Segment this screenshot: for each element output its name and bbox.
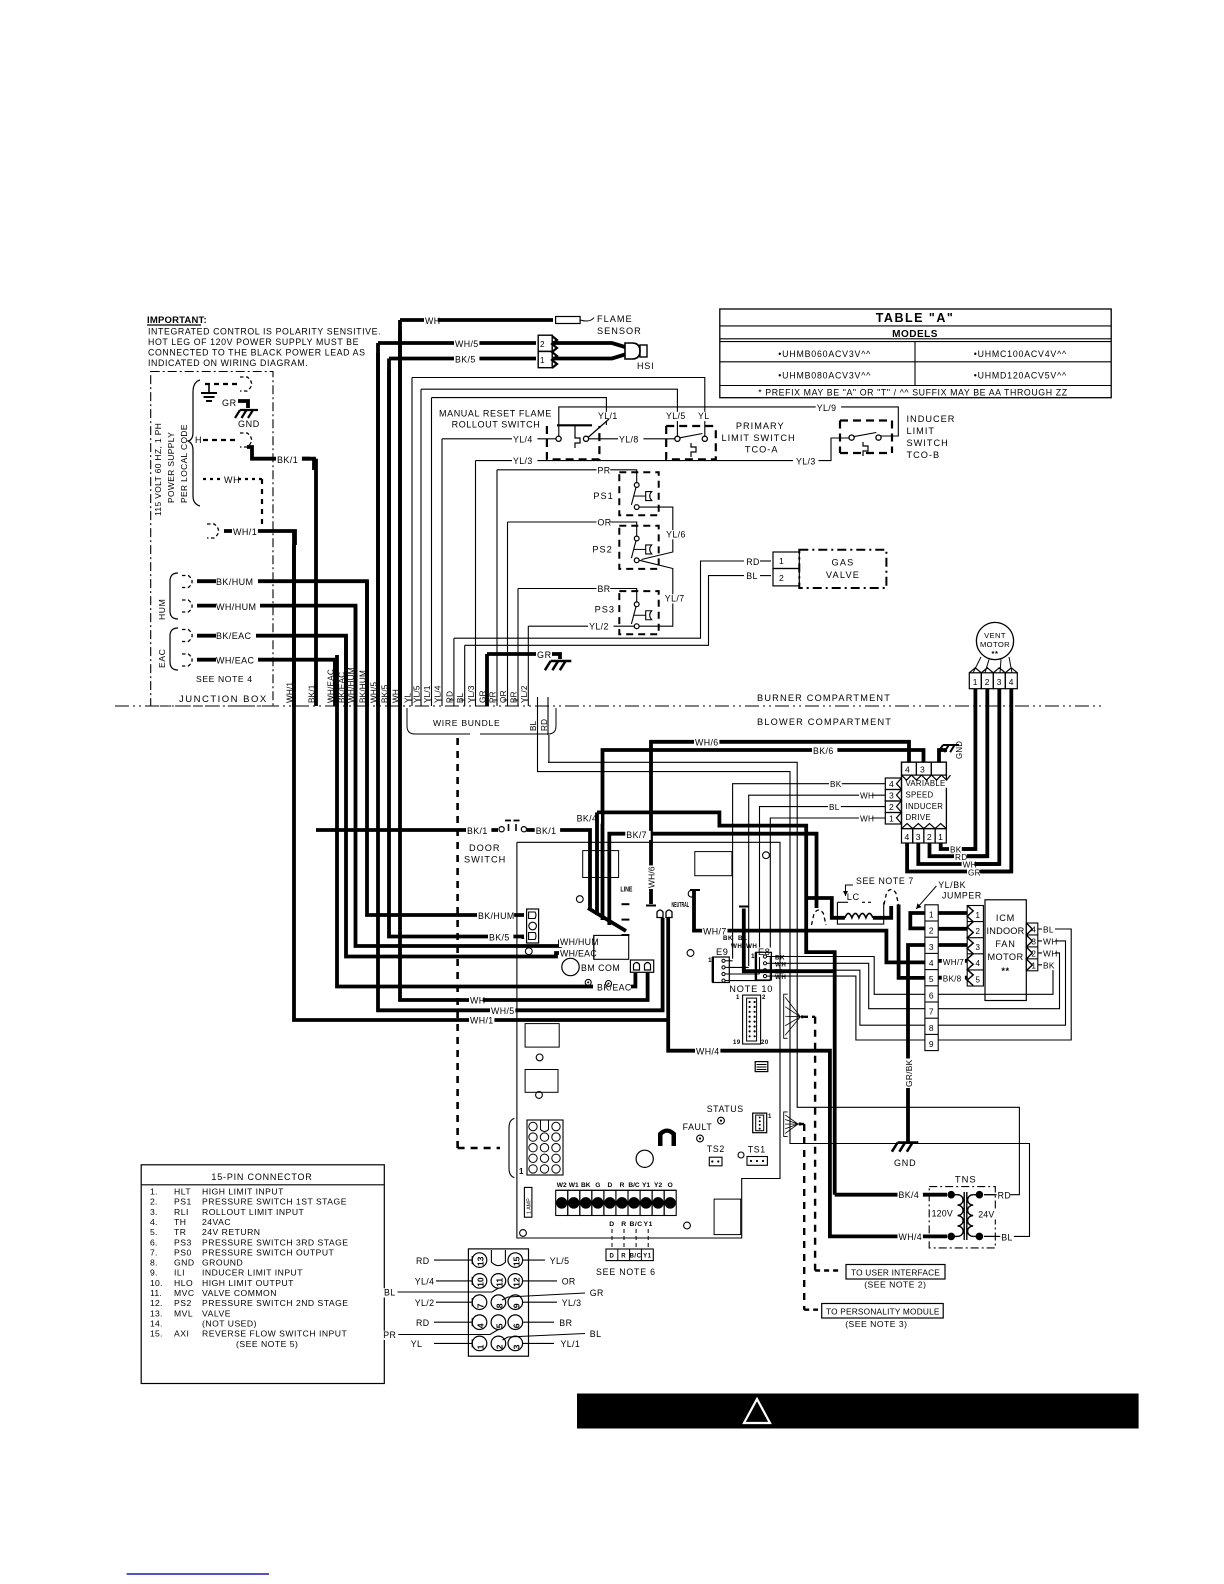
svg-text:1: 1 <box>521 934 525 941</box>
wire BK VSID bottom pin1 to vent motor <box>941 843 976 849</box>
board component rectangles lower-left <box>525 1024 559 1048</box>
wire BK VSID left pin4 to E9 <box>733 784 886 959</box>
svg-text:HIGH LIMIT INPUT: HIGH LIMIT INPUT <box>202 1187 284 1197</box>
svg-text:6: 6 <box>929 990 934 1000</box>
svg-text:1: 1 <box>519 1167 524 1176</box>
wire WH vertical <box>398 320 402 706</box>
svg-text:4.: 4. <box>150 1217 158 1227</box>
LINE terminal diagonal <box>588 908 626 931</box>
svg-text:9: 9 <box>929 1039 934 1049</box>
svg-text:BL: BL <box>590 1329 602 1339</box>
svg-text:1: 1 <box>476 1344 486 1349</box>
svg-text:PRIMARY: PRIMARY <box>736 421 785 431</box>
svg-text:WH: WH <box>775 974 786 981</box>
wire BK/HUM <box>197 579 216 583</box>
svg-text:NOTE 10: NOTE 10 <box>729 984 773 994</box>
svg-text:2: 2 <box>494 1344 504 1349</box>
svg-text:SWITCH: SWITCH <box>907 438 949 448</box>
transformer TNS dash-dot box <box>929 1187 995 1248</box>
wire YL/5 vertical <box>420 389 422 706</box>
connector E9 <box>715 948 730 958</box>
svg-text:R: R <box>620 1182 625 1189</box>
svg-text:RD: RD <box>998 1191 1012 1201</box>
wire WH VSID left pin1 to E9 <box>770 818 885 980</box>
15-pin connector pin 13 <box>472 1253 487 1268</box>
ribbon cable fan-out <box>784 994 788 1038</box>
svg-text:BM COM: BM COM <box>581 963 620 973</box>
15-pin connector pin 6 <box>508 1315 523 1330</box>
svg-text:2: 2 <box>779 573 784 583</box>
svg-text:WH: WH <box>775 961 786 968</box>
vent motor wire 2 <box>967 689 987 857</box>
svg-text:8.: 8. <box>150 1258 158 1268</box>
svg-text:SEE NOTE 7: SEE NOTE 7 <box>856 876 914 886</box>
svg-text:3: 3 <box>511 1344 521 1349</box>
svg-text:BL: BL <box>746 571 758 581</box>
svg-text:GAS: GAS <box>831 558 854 568</box>
svg-text:BLOWER COMPARTMENT: BLOWER COMPARTMENT <box>757 717 892 727</box>
pin lead BL to 11 <box>398 1288 499 1292</box>
svg-text:YL/1: YL/1 <box>561 1339 581 1349</box>
svg-text:Y1: Y1 <box>642 1182 650 1189</box>
svg-text:WIRE BUNDLE: WIRE BUNDLE <box>433 718 500 728</box>
svg-text:GR: GR <box>479 690 488 703</box>
pressure switch PS2 dashed box <box>619 526 658 569</box>
svg-text:FLAME: FLAME <box>597 314 633 324</box>
wire WH/5 to HSI <box>378 341 536 345</box>
svg-text:VALVE COMMON: VALVE COMMON <box>202 1288 277 1298</box>
svg-text:H: H <box>195 435 202 445</box>
svg-text:15.: 15. <box>150 1329 163 1339</box>
BM COM circle <box>562 958 579 975</box>
svg-text:GND: GND <box>894 1158 916 1168</box>
wire BK/6 board to VSID pin3 <box>603 750 924 920</box>
svg-text:R: R <box>621 1221 626 1228</box>
rollout switch blade <box>588 419 609 438</box>
VSID left pins 4 3 2 1 <box>885 778 901 790</box>
9-pin connector column <box>925 905 938 1051</box>
2-cell plug connector <box>630 960 653 972</box>
svg-text:3: 3 <box>997 677 1002 687</box>
svg-text:2: 2 <box>762 995 766 1001</box>
wire HSI lead top <box>552 343 625 347</box>
svg-text:PS1: PS1 <box>593 491 613 501</box>
svg-text:3: 3 <box>889 791 894 801</box>
pressure switch PS1 dashed box <box>619 472 658 515</box>
PS1 contacts <box>634 483 639 488</box>
svg-text:1: 1 <box>889 814 894 824</box>
wire YL/1 from bundle to rollout switch blade <box>432 398 607 425</box>
svg-text:B/C: B/C <box>630 1254 642 1260</box>
15-pin connector pin 7 <box>472 1295 487 1310</box>
svg-text:VARIABLE: VARIABLE <box>906 779 946 788</box>
svg-text:BK/7: BK/7 <box>626 830 647 840</box>
svg-text:YL/3: YL/3 <box>467 685 476 703</box>
piezo circle <box>636 1150 653 1167</box>
wire BK/HUM run into board connector <box>367 592 524 915</box>
wire YL/4 vertical <box>441 439 443 706</box>
svg-text:PS3: PS3 <box>174 1237 192 1247</box>
TCO-B thermal element <box>863 442 868 456</box>
svg-text:2: 2 <box>889 802 894 812</box>
svg-text:(SEE NOTE 3): (SEE NOTE 3) <box>845 1319 907 1329</box>
svg-text:MANUAL RESET FLAME: MANUAL RESET FLAME <box>439 409 552 419</box>
svg-text:LINE: LINE <box>620 885 632 894</box>
svg-text:PR: PR <box>489 691 498 703</box>
svg-text:WH: WH <box>224 475 240 485</box>
svg-text:YL/2: YL/2 <box>589 622 609 632</box>
svg-text:20: 20 <box>761 1040 769 1046</box>
wire WH/EAC run into board <box>346 646 594 957</box>
svg-text:Y1: Y1 <box>643 1254 652 1260</box>
jumper YL/BK between pins 1 and 2 <box>910 913 925 928</box>
svg-text:GR: GR <box>968 868 981 877</box>
wire plug to 9-pin pin5 BK/8 <box>899 905 925 978</box>
dashed plug left of ILC (BK/7) <box>812 910 827 925</box>
footer blue line <box>127 1573 269 1575</box>
board component rectangle upper-right <box>695 852 732 876</box>
wire GR/BK from pin3 to ground <box>908 945 925 1143</box>
svg-text:24V: 24V <box>978 1210 994 1220</box>
svg-text:24VAC: 24VAC <box>202 1217 231 1227</box>
wire GR vertical (heavy) <box>485 654 489 706</box>
svg-text:GR/BK: GR/BK <box>904 1059 914 1087</box>
wire HSI lead bottom <box>552 355 625 359</box>
svg-text:GR: GR <box>590 1288 604 1298</box>
pin lead BL to 2 <box>503 1334 586 1341</box>
TNS primary coil 120V <box>951 1194 957 1196</box>
E9 pin jumper wires to VSID leads <box>729 960 732 962</box>
svg-text:EAC: EAC <box>157 649 167 668</box>
HSI connector plug pins 2 and 1 <box>538 335 552 351</box>
svg-text:4: 4 <box>905 832 910 842</box>
wire BK from E8 to pin6 <box>771 957 925 995</box>
svg-text:MVL: MVL <box>174 1308 193 1318</box>
15-pin connector pin 15 <box>508 1253 523 1268</box>
svg-text:1: 1 <box>751 953 755 960</box>
svg-text:HUM: HUM <box>157 599 167 620</box>
svg-text:BK: BK <box>723 935 733 942</box>
svg-text:BR: BR <box>559 1318 572 1328</box>
svg-text:BK/HUM: BK/HUM <box>216 577 253 587</box>
svg-text:ROLLOUT SWITCH: ROLLOUT SWITCH <box>452 420 541 430</box>
svg-text:D: D <box>609 1221 614 1228</box>
svg-text:YL: YL <box>404 692 413 703</box>
svg-text:YL/4: YL/4 <box>513 435 533 445</box>
svg-text:WH/EAC: WH/EAC <box>216 656 255 666</box>
box TO USER INTERFACE <box>846 1265 945 1280</box>
svg-text:10.: 10. <box>150 1278 163 1288</box>
svg-text:PS0: PS0 <box>174 1247 192 1257</box>
pin lead OR to 12 <box>523 1280 557 1282</box>
wire YL/3 vertical <box>475 461 477 706</box>
svg-text:3: 3 <box>976 943 981 952</box>
svg-text:TNS: TNS <box>955 1174 977 1185</box>
svg-text:BR: BR <box>510 691 519 703</box>
svg-text:INDICATED ON WIRING DIAGRAM.: INDICATED ON WIRING DIAGRAM. <box>148 358 308 368</box>
TCO-A thermal element <box>691 443 696 457</box>
svg-text:3: 3 <box>929 942 934 952</box>
svg-text:BK/1: BK/1 <box>308 684 317 703</box>
svg-text:YL/5: YL/5 <box>550 1256 570 1266</box>
svg-text:8: 8 <box>494 1303 504 1308</box>
svg-text:12.: 12. <box>150 1298 163 1308</box>
wire WH run into board <box>400 330 648 1000</box>
wire heavy into ILC <box>806 898 845 918</box>
15-pin connector pin 3 <box>508 1336 523 1351</box>
vent motor wire 4 <box>981 689 1011 872</box>
15-pin connector pin 10 <box>472 1274 487 1289</box>
wire BK/EAC run into board <box>337 655 593 987</box>
wire YL/5 from bundle to TCO-A left contact <box>421 389 677 436</box>
svg-text:19: 19 <box>733 1040 741 1046</box>
wire WH VSID left pin3 to E9 <box>749 795 886 966</box>
svg-text:(SEE NOTE 5): (SEE NOTE 5) <box>236 1339 298 1349</box>
wire WH/7 to 9-pin connector pin4 <box>694 890 925 962</box>
HUM EAC junction box on board <box>594 935 629 959</box>
burner/blower compartment divider line <box>115 705 1105 707</box>
pin lead BR to 6 <box>523 1321 554 1323</box>
wire WH from E8 to pin7 <box>771 963 925 1008</box>
svg-text:WH: WH <box>746 943 757 950</box>
wire YL/7 PS2 to PS3 <box>640 560 673 626</box>
TCO-A blade <box>680 434 703 438</box>
svg-text:YL/BK: YL/BK <box>938 880 966 890</box>
svg-text:6.: 6. <box>150 1237 158 1247</box>
svg-text:RD: RD <box>416 1256 430 1266</box>
wire YL/2 from PS3 to bundle <box>528 625 634 627</box>
svg-text:MVC: MVC <box>174 1288 195 1298</box>
svg-text:3: 3 <box>920 765 925 775</box>
svg-text:Y1: Y1 <box>644 1221 653 1228</box>
wire BK from ICM pin1 <box>938 965 1053 995</box>
svg-text:VALVE: VALVE <box>202 1308 231 1318</box>
svg-text:BK/8: BK/8 <box>943 975 962 984</box>
wire WH/5 run into board neutral <box>378 353 663 1010</box>
vent motor circle <box>976 622 1013 659</box>
svg-text:INDUCER: INDUCER <box>907 414 956 424</box>
wire ILC to plug <box>873 906 891 918</box>
svg-text:OR: OR <box>562 1277 576 1287</box>
svg-text:STATUS: STATUS <box>707 1104 744 1114</box>
svg-text:RD: RD <box>416 1318 430 1328</box>
svg-text:WH/5: WH/5 <box>455 339 479 349</box>
wire WH from E8 to pin9 <box>771 976 925 1040</box>
15-pin connector pin 2 <box>491 1336 506 1351</box>
svg-text:TH: TH <box>174 1217 186 1227</box>
gas valve dashed box <box>799 550 886 588</box>
svg-text:YL/8: YL/8 <box>619 435 639 445</box>
dashed link to personality module box <box>804 1308 818 1310</box>
svg-text:1: 1 <box>929 909 934 919</box>
svg-text:R: R <box>621 1254 626 1260</box>
svg-text:OR: OR <box>598 518 612 528</box>
wire BL from ICM pin4 <box>938 929 1071 1040</box>
svg-text:TCO-A: TCO-A <box>745 445 779 455</box>
svg-text:BL: BL <box>384 1288 396 1298</box>
VSID ground wire <box>939 750 947 762</box>
15-pin connector pin 11 <box>491 1274 506 1289</box>
junction box enclosure (dash-dot border) <box>151 372 273 707</box>
svg-text:RD: RD <box>540 719 549 731</box>
TNS terminals <box>947 1191 955 1199</box>
15-pin connector body <box>468 1249 528 1356</box>
pin lead YL/4 to 10 <box>436 1280 472 1282</box>
chassis ground GND <box>240 409 258 411</box>
svg-text:WH/HUM: WH/HUM <box>560 937 599 947</box>
burner chassis ground <box>551 660 572 663</box>
svg-text:YL/9: YL/9 <box>817 403 837 413</box>
wire YL vertical <box>411 378 413 707</box>
pin lead YL/1 to 3 <box>523 1342 554 1344</box>
15-pin connector pin 8 <box>491 1295 506 1310</box>
svg-text:3.: 3. <box>150 1207 158 1217</box>
wire BR vertical <box>517 589 519 707</box>
svg-text:6: 6 <box>511 1323 521 1328</box>
wire WH/EAC vertical <box>333 660 337 706</box>
wire BK/HUM vertical <box>365 581 369 706</box>
svg-text:4: 4 <box>889 779 894 789</box>
board mount rectangle bottom <box>714 1199 741 1235</box>
wire YL/1 vertical <box>431 398 433 706</box>
15-pin connector legend table <box>141 1165 384 1384</box>
wire WH/7 terminal bar <box>690 889 700 891</box>
svg-text:W1: W1 <box>569 1182 579 1189</box>
svg-text:2: 2 <box>976 927 981 936</box>
variable speed inducer drive box <box>902 762 947 829</box>
connector D R B/C Y1 <box>606 1249 653 1261</box>
svg-text:SWITCH: SWITCH <box>464 855 506 865</box>
wire WH/HUM vertical <box>354 606 358 706</box>
vent motor lead trapezoid <box>973 657 981 673</box>
svg-text:FAN: FAN <box>995 939 1015 949</box>
svg-text:SENSOR: SENSOR <box>597 326 642 336</box>
pin lead YL/5 to 15 <box>523 1259 545 1261</box>
chassis ground GND blower <box>898 1141 919 1144</box>
svg-text:INDOOR: INDOOR <box>987 926 1025 936</box>
connector plug BK/EAC <box>182 630 192 642</box>
wire BK/8 pin5 to ICM pin5 <box>938 976 967 980</box>
svg-text:JUNCTION BOX: JUNCTION BOX <box>179 694 268 705</box>
svg-text:YL/2: YL/2 <box>520 685 529 703</box>
svg-text:G: G <box>595 1182 600 1189</box>
svg-text:PRESSURE SWITCH OUTPUT: PRESSURE SWITCH OUTPUT <box>202 1247 335 1257</box>
wire BK/5 vertical <box>387 359 391 707</box>
svg-text:HLO: HLO <box>174 1278 193 1288</box>
warning banner black bar <box>577 1394 1139 1429</box>
wire WH from ICM pin3 <box>938 941 1065 1025</box>
svg-text:WH/EAC: WH/EAC <box>560 949 597 959</box>
svg-text:(NOT USED): (NOT USED) <box>202 1318 257 1328</box>
wire WH/EAC <box>197 658 216 662</box>
svg-text:BK/5: BK/5 <box>455 355 476 365</box>
ICM right pin column 4 3 2 1 <box>1026 923 1038 971</box>
svg-text:**: ** <box>992 649 999 658</box>
svg-text:1: 1 <box>976 911 981 920</box>
svg-text:BK/4: BK/4 <box>577 814 598 824</box>
pin lead RD to 4 <box>434 1321 472 1323</box>
board component rectangle upper-left <box>583 851 619 878</box>
svg-text:PRESSURE SWITCH 2ND STAGE: PRESSURE SWITCH 2ND STAGE <box>202 1298 349 1308</box>
vent motor wire 1 <box>950 689 975 849</box>
connector plug WH/EAC <box>182 654 192 666</box>
connector plug BK/HUM <box>182 576 192 588</box>
svg-text:YL/1: YL/1 <box>423 685 432 703</box>
wire BK/EAC vertical <box>344 636 348 706</box>
box TO PERSONALITY MODULE <box>822 1304 944 1319</box>
svg-text:LC: LC <box>847 892 860 902</box>
svg-text:11.: 11. <box>150 1288 162 1298</box>
svg-text:YL/5: YL/5 <box>413 685 422 703</box>
wire pin3 to ICM pin3 <box>938 943 967 947</box>
svg-text:WH: WH <box>731 943 742 950</box>
svg-text:PS2: PS2 <box>174 1298 192 1308</box>
wire YL/4 into rollout switch <box>442 438 556 440</box>
pressure switch PS3 dashed box <box>619 591 658 634</box>
gas valve terminal block pins 1 2 <box>773 552 799 569</box>
svg-text:PS1: PS1 <box>174 1197 192 1207</box>
svg-text:YL/3: YL/3 <box>562 1298 582 1308</box>
board via holes top <box>576 896 583 903</box>
wire RD VSID bottom pin2 to vent motor <box>930 843 988 856</box>
svg-text:YL/3: YL/3 <box>796 457 816 467</box>
svg-text:REVERSE FLOW SWITCH INPUT: REVERSE FLOW SWITCH INPUT <box>202 1329 347 1339</box>
svg-text:1 AMP: 1 AMP <box>527 1198 533 1214</box>
svg-text:NEUTRAL: NEUTRAL <box>672 902 690 909</box>
svg-text:AXI: AXI <box>174 1329 189 1339</box>
15-pin connector key slot <box>491 1250 505 1266</box>
wire YL/8 rollout to TCO-A <box>589 438 675 440</box>
15-pin connector pin 4 <box>472 1315 487 1330</box>
svg-text:13: 13 <box>476 1256 486 1266</box>
svg-text:WH/6: WH/6 <box>695 738 719 748</box>
svg-text:1: 1 <box>708 957 712 964</box>
board small component <box>755 1062 768 1072</box>
15-pin connector pin 5 <box>491 1315 506 1330</box>
svg-text:24V RETURN: 24V RETURN <box>202 1227 260 1237</box>
wire BK/4 neutral-area to transformer <box>744 909 835 972</box>
brace for power supply group <box>188 380 200 506</box>
svg-text:9.: 9. <box>150 1268 158 1278</box>
svg-text:7.: 7. <box>150 1247 158 1257</box>
svg-text:•UHMB060ACV3V^^: •UHMB060ACV3V^^ <box>778 349 871 359</box>
svg-text:RD: RD <box>746 557 760 567</box>
svg-text:WH: WH <box>1043 936 1058 946</box>
inducer limit switch TCO-B dashed box <box>840 421 892 454</box>
svg-text:YL: YL <box>698 411 710 421</box>
svg-text:RLI: RLI <box>174 1207 189 1217</box>
svg-text:1: 1 <box>938 832 943 842</box>
svg-text:WH: WH <box>470 996 485 1006</box>
svg-text:•UHMB080ACV3V^^: •UHMB080ACV3V^^ <box>778 370 871 380</box>
bracket for 15-pin connector <box>509 1118 514 1177</box>
jumper clip component <box>658 1129 676 1147</box>
3-cell connector for BK/HUM BK/5 <box>527 909 539 943</box>
fuse 1 AMP <box>524 1187 532 1217</box>
wire GR to GND <box>238 401 248 408</box>
svg-text:HOT LEG OF 120V POWER SUPPLY M: HOT LEG OF 120V POWER SUPPLY MUST BE <box>148 337 359 347</box>
TCO-B blade <box>854 433 876 437</box>
wire BK/1 corner down <box>302 459 314 470</box>
svg-text:2: 2 <box>927 832 932 842</box>
svg-text:15-PIN CONNECTOR: 15-PIN CONNECTOR <box>211 1172 312 1182</box>
rollout switch contacts <box>556 436 561 441</box>
wire WH/1 vertical <box>292 531 296 706</box>
svg-text:VENT: VENT <box>984 631 1006 640</box>
board via holes bottom <box>738 1152 744 1158</box>
svg-text:YL/5: YL/5 <box>666 411 686 421</box>
wire WH/HUM run into board <box>356 616 594 946</box>
